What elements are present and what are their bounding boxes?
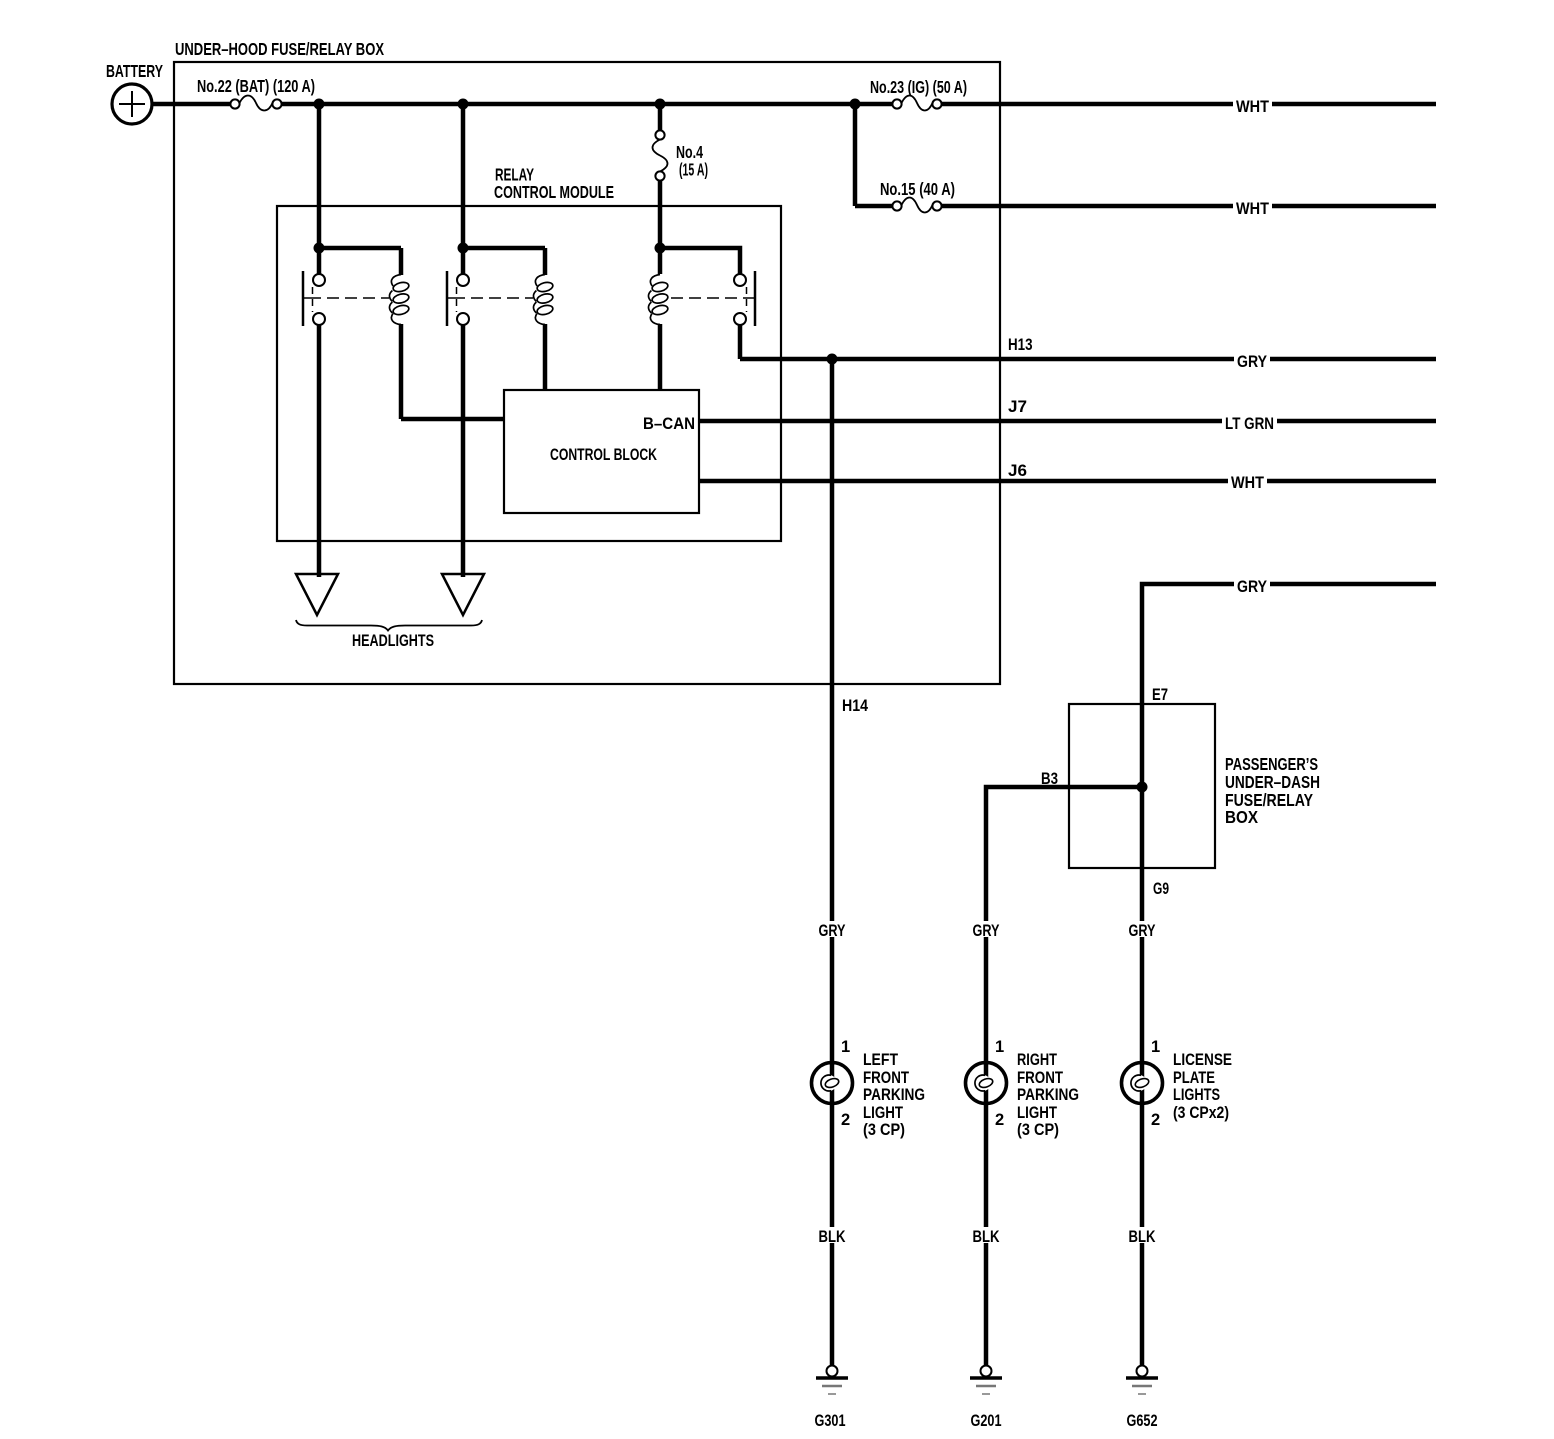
svg-text:2: 2 [841,1111,850,1129]
svg-text:BLK: BLK [973,1228,1000,1246]
svg-text:E7: E7 [1152,686,1168,704]
svg-text:PARKING: PARKING [863,1086,925,1104]
svg-text:BOX: BOX [1225,807,1258,827]
svg-text:PLATE: PLATE [1173,1069,1215,1087]
svg-text:1: 1 [841,1038,850,1056]
svg-text:LIGHT: LIGHT [1017,1104,1057,1122]
svg-text:J7: J7 [1008,398,1027,416]
svg-text:G9: G9 [1153,880,1169,898]
svg-text:CONTROL BLOCK: CONTROL BLOCK [550,446,657,464]
svg-text:(3 CP): (3 CP) [1017,1121,1059,1139]
svg-text:PASSENGER’S: PASSENGER’S [1225,754,1318,774]
svg-text:GRY: GRY [1129,922,1156,940]
svg-text:No.15 (40 A): No.15 (40 A) [880,179,955,199]
svg-text:GRY: GRY [1237,353,1267,371]
svg-text:2: 2 [1151,1111,1160,1129]
svg-text:LICENSE: LICENSE [1173,1051,1232,1069]
svg-text:No.23 (IG) (50 A): No.23 (IG) (50 A) [870,77,967,97]
svg-text:GRY: GRY [819,922,846,940]
svg-text:LT GRN: LT GRN [1225,415,1274,433]
svg-text:WHT: WHT [1236,98,1269,116]
svg-text:(3 CPx2): (3 CPx2) [1173,1104,1229,1122]
svg-text:UNDER–HOOD FUSE/RELAY BOX: UNDER–HOOD FUSE/RELAY BOX [175,39,384,59]
svg-text:B–CAN: B–CAN [643,415,695,433]
svg-text:WHT: WHT [1231,474,1264,492]
svg-text:LIGHTS: LIGHTS [1173,1086,1220,1104]
svg-text:H13: H13 [1008,336,1033,354]
svg-text:G652: G652 [1127,1412,1158,1430]
svg-text:BLK: BLK [1129,1228,1156,1246]
svg-text:(3 CP): (3 CP) [863,1121,905,1139]
svg-text:BLK: BLK [819,1228,846,1246]
svg-text:GRY: GRY [1237,578,1267,596]
svg-text:LEFT: LEFT [863,1051,898,1069]
svg-text:PARKING: PARKING [1017,1086,1079,1104]
svg-text:WHT: WHT [1236,200,1269,218]
svg-text:1: 1 [995,1038,1004,1056]
svg-text:GRY: GRY [973,922,1000,940]
svg-text:RIGHT: RIGHT [1017,1051,1057,1069]
svg-text:UNDER–DASH: UNDER–DASH [1225,772,1320,792]
svg-text:1: 1 [1151,1038,1160,1056]
svg-text:G301: G301 [815,1412,846,1430]
svg-text:No.22 (BAT) (120 A): No.22 (BAT) (120 A) [197,76,315,96]
svg-text:CONTROL MODULE: CONTROL MODULE [494,182,614,202]
svg-text:(15 A): (15 A) [679,160,708,180]
svg-text:2: 2 [995,1111,1004,1129]
svg-text:HEADLIGHTS: HEADLIGHTS [352,632,434,650]
svg-text:J6: J6 [1008,462,1027,480]
svg-text:G201: G201 [971,1412,1002,1430]
svg-text:LIGHT: LIGHT [863,1104,903,1122]
svg-text:FRONT: FRONT [1017,1069,1063,1087]
svg-text:FRONT: FRONT [863,1069,909,1087]
svg-text:B3: B3 [1041,770,1058,788]
svg-text:H14: H14 [842,697,869,715]
svg-text:BATTERY: BATTERY [106,61,163,81]
